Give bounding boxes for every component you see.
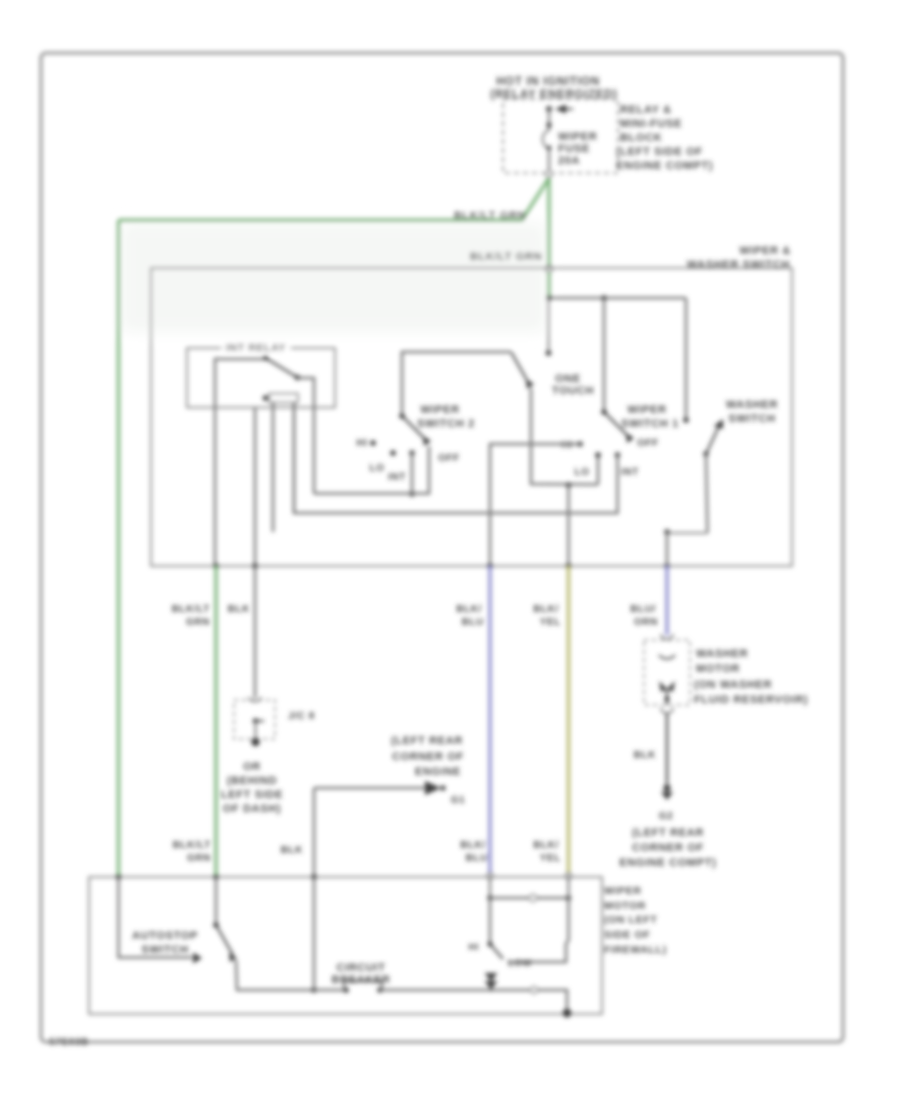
- svg-text:BLU: BLU: [466, 853, 488, 864]
- svg-text:BLK/LT: BLK/LT: [173, 840, 211, 851]
- node J/C 8 terminal: [251, 738, 259, 746]
- svg-text:HOT IN IGNITION: HOT IN IGNITION: [496, 76, 600, 88]
- svg-text:INT: INT: [621, 467, 639, 478]
- svg-text:INT: INT: [388, 472, 406, 483]
- wire INT contact to relay line: [411, 453, 414, 494]
- svg-text:WIPER &: WIPER &: [739, 245, 791, 257]
- svg-text:SIDE OF: SIDE OF: [604, 929, 650, 941]
- svg-text:BLU: BLU: [462, 617, 484, 628]
- svg-text:BLK/: BLK/: [456, 604, 482, 615]
- relay contact feed node: [546, 106, 552, 112]
- svg-text:MOTOR: MOTOR: [604, 900, 646, 912]
- svg-text:HI: HI: [468, 942, 479, 953]
- ground G1 arrow: [425, 781, 441, 795]
- svg-text:G2: G2: [659, 811, 674, 822]
- connector washer motor entry: [661, 634, 673, 639]
- switch washer switch: [703, 451, 709, 457]
- node switch output BLK/LT GRN: [213, 563, 219, 569]
- wire BLK/BLU to armature: [489, 875, 491, 898]
- wire feed to wiper switch 1 pivot: [603, 298, 606, 412]
- node relay contact terminal: [263, 355, 269, 361]
- svg-text:FUSE: FUSE: [558, 143, 590, 155]
- wire BLK/LT GRN to autostop: [214, 566, 217, 877]
- switch autostop: [215, 877, 218, 925]
- node switch output BLK/BLU: [487, 563, 493, 569]
- svg-text:WIPER: WIPER: [558, 131, 597, 143]
- svg-text:BLK/LT GRN: BLK/LT GRN: [454, 210, 526, 222]
- wire BLK to ground G1: [314, 787, 426, 790]
- motor park contact arrow: [485, 973, 498, 982]
- wire park contact feed: [119, 877, 193, 958]
- svg-text:BLK: BLK: [634, 750, 657, 761]
- motor brushes symbol: [659, 681, 667, 692]
- junction block J/C 8 (dashed): [234, 700, 275, 739]
- svg-text:57E03B: 57E03B: [49, 1037, 89, 1048]
- svg-text:WASHER SWITCH: WASHER SWITCH: [687, 259, 790, 271]
- node BLK entry: [311, 874, 317, 880]
- svg-text:ONE: ONE: [555, 373, 581, 385]
- svg-text:ENGINE COMPT): ENGINE COMPT): [616, 160, 713, 172]
- svg-text:BLK/: BLK/: [533, 840, 559, 851]
- svg-text:INT RELAY: INT RELAY: [226, 342, 286, 354]
- svg-text:WIPER: WIPER: [604, 885, 642, 897]
- wire coil to int line: [293, 403, 296, 513]
- wire fuse to connector: [548, 149, 550, 171]
- svg-text:J/C 8: J/C 8: [288, 711, 315, 722]
- wire BLK/BLU to wiper motor: [488, 566, 491, 875]
- switch wiper switch 2: [399, 413, 405, 419]
- wire one-touch to low circuit: [531, 388, 598, 485]
- wire BLU/ORN to washer motor: [665, 566, 668, 635]
- node armature left: [487, 895, 493, 901]
- svg-text:(RELAY ENERGIZED): (RELAY ENERGIZED): [490, 89, 617, 101]
- wire BLK to J/C 8: [254, 566, 257, 698]
- wire BLK/LT GRN left branch: [119, 178, 550, 220]
- svg-text:OFF: OFF: [438, 453, 460, 464]
- svg-text:BLK/: BLK/: [533, 604, 559, 615]
- connector J/C 8 entry: [249, 697, 261, 702]
- relay coil: [263, 395, 269, 401]
- node switch output BLK/YEL: [566, 563, 572, 569]
- svg-text:MINI-FUSE: MINI-FUSE: [620, 118, 682, 130]
- wire relay output BLK: [254, 408, 257, 567]
- connector on return wire: [531, 987, 537, 993]
- svg-text:YEL: YEL: [540, 853, 561, 864]
- node one-touch contact: [546, 350, 552, 356]
- connector BLK/YEL entry: [566, 873, 572, 879]
- wire feed to one-touch contact: [548, 298, 550, 353]
- circuit breaker: [343, 987, 349, 993]
- connector washer motor exit: [661, 708, 673, 713]
- node return at box edge: [563, 1009, 572, 1018]
- node washer switch contact: [683, 417, 689, 423]
- svg-text:GRN: GRN: [186, 617, 210, 628]
- relay contact arrow: [555, 105, 566, 114]
- motor armature winding: [490, 897, 569, 900]
- node BLK/LT GRN entry: [116, 874, 122, 880]
- svg-text:FIREWALL): FIREWALL): [604, 944, 667, 956]
- node relay common: [295, 375, 301, 381]
- svg-text:(BEHIND: (BEHIND: [227, 775, 277, 787]
- wire washer output to box edge: [666, 532, 669, 566]
- svg-text:BLK/LT GRN: BLK/LT GRN: [470, 251, 542, 263]
- wire to washer switch contact: [685, 298, 688, 420]
- wire autostop to circuit breaker: [236, 960, 314, 990]
- inline connector on green wire: [546, 266, 552, 272]
- wire INT contact to int relay line: [294, 403, 618, 513]
- svg-text:(ON WASHER: (ON WASHER: [694, 679, 772, 691]
- wire relay common to wiper switch 2: [298, 378, 315, 494]
- svg-text:(LEFT REAR: (LEFT REAR: [391, 735, 463, 747]
- svg-text:RELAY &: RELAY &: [620, 104, 672, 116]
- svg-text:WASHER: WASHER: [696, 648, 748, 660]
- wire relay contact to output: [215, 359, 266, 566]
- wire BLK/YEL to LOW contact: [567, 875, 569, 898]
- switch wiper switch 1: [601, 409, 607, 415]
- relay and mini-fuse block (dashed enclosure): [503, 99, 618, 173]
- connector BLK/BLU entry: [487, 873, 493, 879]
- svg-text:(ON LEFT: (ON LEFT: [604, 914, 657, 926]
- svg-text:BLK/: BLK/: [460, 840, 486, 851]
- wire relay to fuse: [548, 109, 550, 131]
- svg-text:SWITCH: SWITCH: [141, 944, 188, 956]
- svg-text:FLUID RESERVOIR): FLUID RESERVOIR): [694, 694, 808, 706]
- svg-text:ENGINE: ENGINE: [415, 766, 461, 778]
- node wiper switch 2 LO contact: [390, 450, 396, 456]
- wire HI contact to BLK/BLU: [490, 444, 580, 566]
- wire BLK/YEL to wiper motor: [567, 566, 570, 875]
- wiper motor and autostop assembly box: [89, 877, 602, 1014]
- svg-text:BLK: BLK: [228, 604, 251, 615]
- switch one-touch arm: [511, 352, 528, 382]
- node armature right: [566, 895, 572, 901]
- svg-text:LO: LO: [369, 463, 384, 474]
- svg-text:LEFT SIDE: LEFT SIDE: [221, 789, 283, 801]
- node BLK/YEL junction: [566, 482, 572, 488]
- svg-text:BREAKER: BREAKER: [331, 974, 390, 986]
- wiper and washer switch assembly box: [151, 268, 792, 566]
- wire coil terminal stub: [272, 403, 275, 533]
- wire breaker to motor return: [380, 989, 531, 992]
- wire BLK/LT GRN down to switch: [547, 178, 550, 266]
- svg-text:OFF: OFF: [637, 438, 659, 449]
- svg-text:CORNER OF: CORNER OF: [632, 842, 704, 854]
- node wiper switch 1 LO contact: [595, 452, 601, 458]
- svg-text:MOTOR: MOTOR: [696, 663, 740, 675]
- svg-text:HI: HI: [356, 438, 367, 449]
- wire washer switch pivot down: [706, 454, 708, 533]
- svg-text:BLK/LT: BLK/LT: [172, 604, 210, 615]
- svg-text:OR: OR: [243, 761, 261, 773]
- node BLK/LT GRN entry 2: [213, 874, 219, 880]
- node switch output BLK: [252, 563, 258, 569]
- svg-text:SWITCH 1: SWITCH 1: [621, 418, 679, 430]
- svg-text:CORNER OF: CORNER OF: [392, 751, 464, 763]
- svg-text:(LEFT REAR: (LEFT REAR: [632, 827, 704, 839]
- node washer output junction: [664, 529, 670, 535]
- svg-text:ORN: ORN: [634, 617, 658, 628]
- connector at fuse block edge: [546, 171, 552, 177]
- relay contact arm: [266, 358, 298, 378]
- svg-text:CIRCUIT: CIRCUIT: [336, 962, 385, 974]
- svg-text:BLOCK: BLOCK: [620, 132, 662, 144]
- svg-text:GRN: GRN: [187, 853, 211, 864]
- wire feed rail: [549, 297, 686, 300]
- svg-text:BLU/: BLU/: [630, 604, 656, 615]
- svg-text:HI: HI: [561, 440, 572, 451]
- svg-text:LOW: LOW: [508, 958, 532, 969]
- autostop park contact arrow: [193, 953, 202, 964]
- svg-text:20A: 20A: [558, 155, 580, 167]
- svg-text:SWITCH: SWITCH: [728, 413, 775, 425]
- wire OFF contact to relay line: [314, 446, 429, 494]
- svg-text:WIPER: WIPER: [420, 404, 459, 416]
- svg-text:(LEFT SIDE OF: (LEFT SIDE OF: [616, 146, 703, 158]
- svg-text:WASHER: WASHER: [726, 399, 778, 411]
- svg-text:SWITCH 2: SWITCH 2: [417, 418, 475, 430]
- motor washer motor (dashed): [644, 640, 690, 705]
- svg-text:G1: G1: [451, 795, 466, 806]
- node wiper switch 2 INT contact: [409, 450, 415, 456]
- svg-text:AUTOSTOP: AUTOSTOP: [132, 930, 198, 942]
- svg-text:LO: LO: [574, 467, 589, 478]
- svg-text:BLK: BLK: [281, 845, 304, 856]
- svg-text:ENGINE COMPT): ENGINE COMPT): [619, 857, 716, 869]
- node wiper switch 1 INT contact: [615, 452, 621, 458]
- switch motor speed selector: [489, 898, 492, 944]
- node breaker line junction: [311, 987, 317, 993]
- relay INT RELAY box: [187, 348, 335, 408]
- svg-text:WIPER: WIPER: [627, 404, 666, 416]
- node switch output BLU/ORN: [664, 563, 670, 569]
- svg-text:TOUCH: TOUCH: [552, 385, 594, 397]
- wire BLK washer motor ground: [666, 713, 669, 784]
- svg-text:YEL: YEL: [540, 617, 561, 628]
- ground G2: [663, 784, 670, 791]
- svg-text:OF DASH): OF DASH): [223, 803, 281, 815]
- wire one-touch to wiper switch 2 pivot: [402, 352, 511, 416]
- fuse F wiper 20A: [543, 130, 549, 149]
